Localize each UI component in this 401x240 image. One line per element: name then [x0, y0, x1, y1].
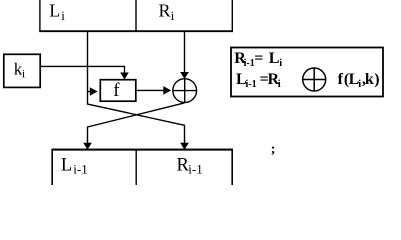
svg-text:i: i: [358, 79, 361, 90]
svg-text:i: i: [61, 8, 65, 23]
wire: Ri down to xor: [184, 31, 186, 73]
svg-text:R: R: [159, 1, 171, 21]
arrowhead into f top: [120, 73, 129, 80]
function box f: [100, 80, 136, 102]
arrowhead into Li-1 box: [83, 143, 92, 150]
arrowhead into f left: [90, 87, 98, 96]
formula line 2: Li-1 = Ri (+) f(Li,k): [236, 71, 380, 90]
bottom register box Li-1/Ri-1: [52, 150, 234, 195]
arrowhead into Ri-1 box: [180, 143, 189, 150]
wire: f output to xor: [136, 89, 164, 91]
svg-text:f: f: [113, 80, 120, 101]
svg-text:i-1: i-1: [73, 161, 87, 176]
svg-text:L: L: [61, 155, 72, 175]
xor circle: [173, 79, 197, 103]
svg-text:f: f: [338, 71, 344, 88]
svg-text:i-1: i-1: [244, 58, 255, 69]
svg-text:k: k: [365, 71, 374, 88]
wire: Li down-line: [88, 31, 185, 144]
svg-text:L: L: [49, 1, 60, 21]
svg-text:i: i: [279, 58, 282, 69]
svg-text:L: L: [269, 50, 280, 67]
svg-text:): ): [374, 71, 379, 88]
svg-text:i-1: i-1: [188, 161, 202, 176]
wire: xor output down-left to Li-1 box: [88, 103, 185, 144]
key box ki: [4, 54, 40, 87]
svg-text:i: i: [171, 8, 175, 23]
wire: branch from Li line into f: [88, 91, 91, 93]
formula box: [231, 48, 383, 97]
wire: ki output to f input (top): [40, 66, 124, 73]
svg-text:i: i: [278, 79, 281, 90]
svg-text:i-1: i-1: [246, 79, 257, 90]
formula line 1: Ri-1 = Li: [234, 50, 282, 69]
svg-text:;: ;: [271, 142, 276, 157]
formula xor symbol: [303, 68, 326, 91]
svg-text:=: =: [254, 50, 263, 67]
arrowhead into xor left: [163, 86, 171, 95]
svg-text:i: i: [22, 67, 26, 81]
arrowhead into xor top: [180, 72, 189, 79]
top register box Li/Ri: [39, 0, 233, 31]
